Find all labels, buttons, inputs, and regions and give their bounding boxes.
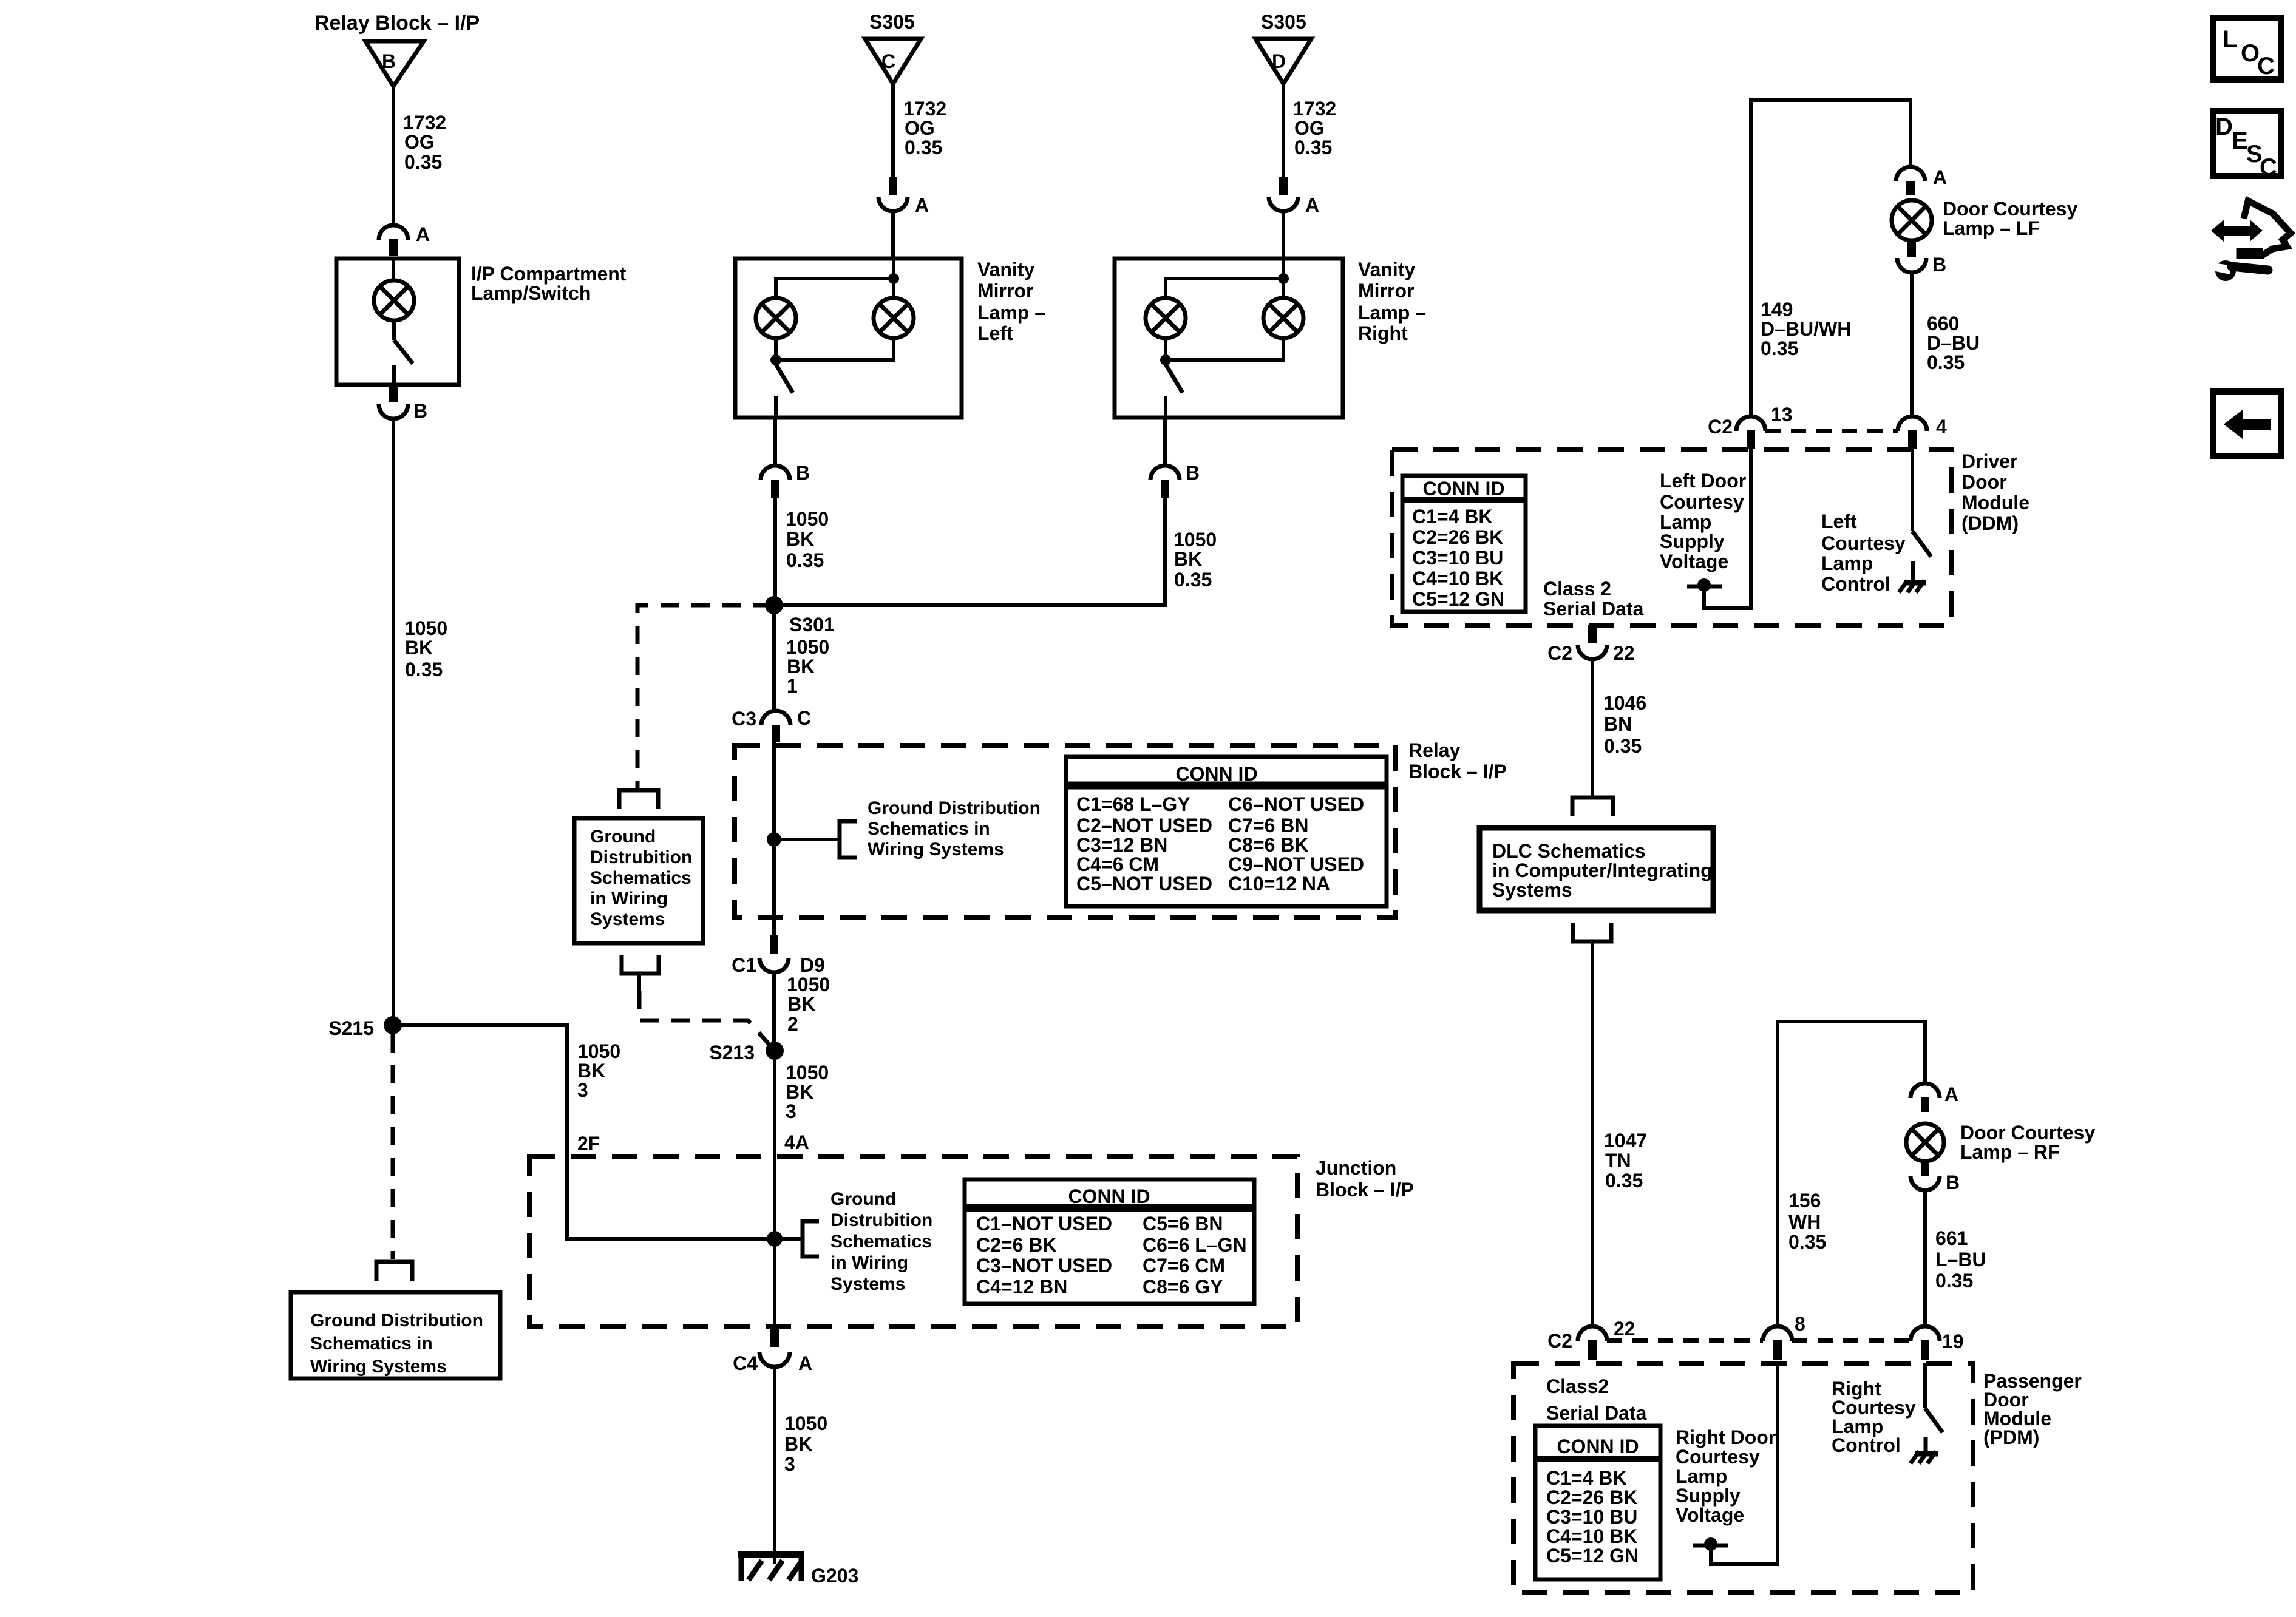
svg-text:Systems: Systems [1492,879,1572,901]
connector pin B of I/P Compartment Lamp [389,385,398,402]
off-page bracket above DLC box [1572,798,1613,816]
svg-text:C8=6 GY: C8=6 GY [1143,1276,1223,1298]
svg-text:Vanity: Vanity [1358,259,1415,280]
wire 1050 BK 2 [772,972,776,1051]
svg-text:Schematics: Schematics [590,868,691,888]
svg-text:1: 1 [787,675,798,697]
svg-text:D: D [1272,50,1286,72]
dashed wire S301 to ground distribution ref (middle) [637,605,772,789]
svg-text:0.35: 0.35 [1761,337,1798,359]
service info nav icon (arrows and wrench) [2211,201,2291,281]
wire 149 D-BU/WH loop (DDM supply) [1751,100,1911,416]
svg-text:C: C [881,50,895,72]
off-page bracket above left ground box [376,1262,412,1281]
svg-text:Control: Control [1821,573,1890,595]
wires inside left vanity box [892,259,895,279]
svg-text:B: B [1932,254,1946,276]
connector pin B of Vanity Mirror Lamp Left [773,418,777,466]
svg-text:C4=10 BK: C4=10 BK [1546,1525,1637,1547]
CONN ID table (DDM) [1402,476,1526,612]
svg-text:1050: 1050 [1173,529,1217,551]
svg-text:Ground: Ground [590,827,656,847]
svg-text:0.35: 0.35 [1927,351,1965,373]
DESC nav box [2213,111,2281,176]
svg-text:Systems: Systems [590,909,665,929]
svg-text:0.35: 0.35 [1935,1270,1973,1292]
svg-text:1050: 1050 [786,636,829,658]
svg-text:C7=6 BN: C7=6 BN [1228,815,1309,836]
junction in junction block [767,1231,783,1247]
svg-text:661: 661 [1935,1227,1968,1249]
wire 1050 BK 3 to G203 [773,1367,776,1564]
lamp (I/P compartment) [392,259,395,281]
svg-text:Right Door: Right Door [1676,1426,1776,1448]
connector triangle B (Relay Block I/P) [365,41,424,86]
svg-text:BK: BK [786,1081,813,1103]
svg-text:C2: C2 [1708,416,1733,438]
svg-text:Lamp: Lamp [1676,1465,1727,1487]
svg-text:Mirror: Mirror [977,280,1033,302]
svg-text:D–BU/WH: D–BU/WH [1761,318,1851,340]
Ground Distribution Schematics box (left) [291,1292,500,1378]
wire 1047 TN [1591,941,1594,1327]
svg-text:0.35: 0.35 [1788,1231,1826,1253]
svg-text:8: 8 [1795,1313,1805,1335]
svg-text:C3=10 BU: C3=10 BU [1546,1506,1637,1528]
PDM connector row: C2 22, 8, 19 [1607,1338,1763,1343]
switch (vanity left) [776,364,793,393]
svg-text:in Wiring: in Wiring [830,1253,908,1273]
svg-text:Serial Data: Serial Data [1546,1402,1647,1424]
svg-text:C5=12 GN: C5=12 GN [1412,588,1504,610]
svg-text:BK: BK [577,1060,605,1082]
svg-text:C9–NOT USED: C9–NOT USED [1228,853,1364,875]
svg-text:OG: OG [1294,117,1325,139]
svg-text:Ground: Ground [830,1189,896,1209]
svg-text:C1=4 BK: C1=4 BK [1412,506,1493,527]
svg-text:C2: C2 [1547,1330,1572,1352]
svg-text:Systems: Systems [830,1274,905,1294]
svg-text:1050: 1050 [786,1062,829,1083]
module ground (PDM) [1915,1451,1938,1457]
svg-text:4A: 4A [784,1131,809,1153]
connector pin A of Door Courtesy Lamp RF [1911,1083,1940,1098]
svg-text:C3–NOT USED: C3–NOT USED [976,1255,1112,1276]
svg-text:Lamp: Lamp [1660,511,1711,533]
svg-text:0.35: 0.35 [1604,735,1642,757]
svg-text:2: 2 [787,1013,798,1035]
svg-text:Block – I/P: Block – I/P [1316,1179,1414,1201]
svg-text:Control: Control [1832,1434,1901,1456]
lamp 2 (vanity left) [892,279,895,298]
svg-text:Block – I/P: Block – I/P [1408,761,1507,782]
svg-text:G203: G203 [811,1565,858,1587]
svg-text:Junction: Junction [1316,1157,1396,1179]
svg-text:Module: Module [1961,492,2029,514]
lamp 1 (vanity left) [756,298,796,338]
svg-text:BK: BK [784,1433,812,1455]
CONN ID table (PDM) [1535,1426,1660,1579]
svg-text:Courtesy: Courtesy [1821,532,1906,554]
svg-text:1050: 1050 [577,1040,620,1062]
wire 1050 BK to S301 [773,498,777,605]
svg-text:Voltage: Voltage [1676,1504,1744,1526]
I/P Compartment Lamp/Switch box [336,259,459,385]
svg-text:S213: S213 [709,1042,755,1063]
svg-text:1732: 1732 [903,98,946,120]
svg-text:DLC Schematics: DLC Schematics [1492,840,1646,862]
svg-text:Serial Data: Serial Data [1543,598,1644,620]
svg-text:Mirror: Mirror [1358,280,1414,302]
svg-text:L: L [2223,26,2237,53]
Relay Block - I/P dashed box [735,745,1395,918]
svg-text:149: 149 [1761,299,1793,320]
svg-text:Left: Left [1821,510,1857,532]
connector pin A of I/P Compartment Lamp [379,225,408,240]
svg-text:0.35: 0.35 [786,549,824,571]
connector pin A of Vanity Mirror Lamp Left [889,177,897,195]
connector pin B of Vanity Mirror Lamp Right [1163,418,1167,466]
svg-text:Distrubition: Distrubition [830,1210,932,1230]
svg-text:1050: 1050 [786,508,829,530]
svg-text:C4=12 BN: C4=12 BN [976,1276,1067,1298]
svg-text:C6=6 L–GN: C6=6 L–GN [1143,1234,1247,1256]
svg-text:CONN ID: CONN ID [1557,1436,1639,1457]
svg-text:(PDM): (PDM) [1983,1426,2039,1448]
module ground (DDM) [1904,580,1926,586]
svg-text:1732: 1732 [403,112,446,134]
svg-text:3: 3 [577,1079,588,1101]
right door courtesy lamp supply voltage terminal [1711,1363,1778,1564]
svg-text:Vanity: Vanity [977,259,1034,280]
svg-text:Door Courtesy: Door Courtesy [1960,1122,2095,1144]
splice S213 [766,1042,784,1060]
svg-text:Lamp: Lamp [1821,552,1873,574]
wire 156 WH loop (PDM supply) [1778,1022,1925,1326]
splice S215 [384,1016,402,1034]
svg-text:C10=12 NA: C10=12 NA [1228,873,1330,895]
LOC nav box [2213,18,2281,80]
svg-text:C: C [2260,154,2277,181]
svg-text:Voltage: Voltage [1660,551,1728,572]
svg-text:S301: S301 [789,614,835,636]
svg-text:Driver: Driver [1961,450,2018,472]
svg-text:13: 13 [1771,404,1793,425]
wire 1732 OG (left vanity) [891,84,895,177]
svg-text:C2: C2 [1547,642,1572,664]
svg-text:I/P Compartment: I/P Compartment [471,263,627,285]
splice S301 [765,596,783,614]
svg-text:1050: 1050 [784,1412,827,1434]
svg-text:C3=12 BN: C3=12 BN [1076,834,1167,856]
svg-text:Courtesy: Courtesy [1660,491,1744,513]
svg-text:C5–NOT USED: C5–NOT USED [1076,873,1212,895]
svg-text:3: 3 [784,1453,795,1475]
svg-text:L–BU: L–BU [1935,1249,1986,1270]
connector C2 pin 22 below DDM [1588,625,1597,643]
wire 1046 BN [1591,659,1594,797]
CONN ID table (Relay Block) [1066,757,1387,906]
DDM connector row: C2 13 and 4 [1765,429,1898,433]
svg-text:Distrubition: Distrubition [590,847,692,867]
box Vanity Mirror Lamp - Left [735,259,962,418]
svg-text:A: A [798,1352,812,1374]
bracket to ground distribution note (relay block) [840,821,857,858]
connector pin B of Door Courtesy Lamp LF [1907,241,1916,257]
svg-text:C5=12 GN: C5=12 GN [1546,1545,1639,1567]
svg-text:Lamp –: Lamp – [1358,302,1426,324]
svg-text:C3: C3 [732,708,756,730]
DLC Schematics box [1479,828,1713,910]
svg-text:CONN ID: CONN ID [1068,1185,1150,1207]
svg-text:Courtesy: Courtesy [1676,1446,1760,1468]
dashed wire S215 to ground distribution ref [391,1034,395,1259]
svg-text:Ground Distribution: Ground Distribution [310,1310,483,1331]
svg-text:D: D [2215,114,2233,140]
svg-text:Ground Distribution: Ground Distribution [868,798,1041,818]
svg-text:Relay: Relay [1408,739,1461,761]
svg-text:BK: BK [405,637,433,659]
svg-text:C: C [2257,53,2275,80]
svg-text:0.35: 0.35 [1294,137,1332,158]
wire into left vanity box [891,211,895,259]
svg-text:Lamp – RF: Lamp – RF [1960,1141,2060,1163]
connector pin A of Vanity Mirror Lamp Right [1279,177,1288,195]
connector C4 pin A below junction block [770,1329,779,1347]
connector C1 pin D9 below relay block [770,935,778,954]
svg-text:Wiring Systems: Wiring Systems [310,1357,447,1377]
wires below lamps (vanity left) [776,338,894,360]
svg-text:B: B [1186,462,1200,484]
wire through relay block [772,742,776,935]
svg-text:TN: TN [1605,1150,1631,1171]
svg-text:B: B [382,50,396,72]
wire 1732 OG (right vanity) [1282,84,1285,177]
wire into right vanity box [1282,211,1285,259]
svg-text:D–BU: D–BU [1927,332,1980,354]
svg-text:Right: Right [1358,322,1408,344]
wire 1050 BK 1 [772,605,776,711]
svg-text:3: 3 [786,1100,796,1122]
svg-text:Door: Door [1961,471,2007,493]
junction node (right vanity feed) [1166,279,1283,298]
lamp 2 (vanity right) [1282,279,1285,298]
wire through junction block [773,1051,776,1329]
wire 661 L-BU [1923,1190,1927,1326]
connector pin A of Door Courtesy Lamp LF [1896,167,1925,181]
connector triangle C (S305) [865,39,921,84]
svg-text:C4=10 BK: C4=10 BK [1412,568,1503,589]
lamp Door Courtesy RF [1906,1124,1944,1161]
svg-text:Supply: Supply [1660,531,1725,552]
back arrow nav box [2213,392,2281,456]
Junction Block - I/P dashed box [529,1156,1297,1327]
svg-text:C4: C4 [733,1352,758,1374]
wire 660 D-BU [1910,273,1914,416]
box Vanity Mirror Lamp - Right [1115,259,1343,418]
svg-text:1732: 1732 [1293,98,1336,120]
svg-text:Supply: Supply [1676,1485,1741,1507]
svg-text:22: 22 [1614,1318,1635,1340]
dashed wire to S213 [639,991,775,1051]
Passenger Door Module (PDM) dashed box [1513,1363,1973,1593]
svg-text:Class2: Class2 [1546,1375,1609,1397]
svg-text:Wiring Systems: Wiring Systems [868,839,1004,859]
svg-text:B: B [413,400,427,422]
svg-text:0.35: 0.35 [1605,1170,1643,1192]
left courtesy lamp control switch [1911,449,1914,531]
CONN ID table (Junction Block) [965,1179,1254,1304]
svg-text:BK: BK [786,528,814,550]
svg-text:0.35: 0.35 [404,151,442,173]
svg-text:0.35: 0.35 [1174,569,1212,591]
svg-text:C2=26 BK: C2=26 BK [1546,1486,1637,1508]
svg-text:660: 660 [1927,313,1959,334]
svg-text:S305: S305 [1261,11,1306,33]
svg-text:Door Courtesy: Door Courtesy [1943,198,2077,220]
svg-text:0.35: 0.35 [905,137,942,158]
svg-text:2F: 2F [577,1133,600,1154]
svg-text:156: 156 [1788,1190,1821,1212]
svg-text:A: A [1944,1083,1958,1105]
svg-text:C5=6 BN: C5=6 BN [1143,1213,1223,1235]
svg-text:Left: Left [977,322,1013,344]
svg-text:Schematics: Schematics [830,1232,932,1252]
svg-text:Lamp/Switch: Lamp/Switch [471,282,591,304]
ground G203 [738,1551,804,1558]
svg-text:A: A [1305,194,1319,216]
svg-text:BK: BK [1174,548,1202,570]
connector pin B of Door Courtesy Lamp RF [1921,1161,1929,1176]
svg-text:CONN ID: CONN ID [1422,478,1504,500]
svg-text:Lamp – LF: Lamp – LF [1943,217,2040,239]
svg-text:C: C [797,707,811,729]
svg-text:19: 19 [1942,1331,1964,1352]
svg-text:C7=6 CM: C7=6 CM [1143,1255,1225,1276]
svg-text:A: A [915,194,929,216]
lamp 1 (vanity right) [1146,298,1186,338]
connector triangle D (S305) [1255,39,1311,84]
svg-text:22: 22 [1613,642,1635,664]
switch (vanity right) [1166,364,1183,393]
wire from S215 to junction block [393,1025,775,1239]
right courtesy lamp control switch [1923,1363,1927,1408]
left door courtesy lamp supply voltage terminal [1704,449,1751,608]
svg-text:1046: 1046 [1603,692,1646,714]
svg-text:B: B [1946,1171,1960,1193]
svg-text:D9: D9 [800,954,825,976]
svg-text:B: B [796,462,810,484]
svg-text:C2–NOT USED: C2–NOT USED [1076,815,1212,836]
svg-text:S305: S305 [869,11,915,33]
bracket to ground distribution note (junction block) [803,1221,819,1256]
svg-text:C4=6 CM: C4=6 CM [1076,853,1159,875]
svg-text:1050: 1050 [404,617,447,639]
svg-text:C6–NOT USED: C6–NOT USED [1228,793,1364,815]
Ground Distrubition Schematics box (middle) [574,818,703,943]
svg-text:BK: BK [787,993,815,1015]
svg-text:A: A [1933,166,1947,188]
wire 1050 BK to S215 [392,419,395,1025]
svg-text:C8=6 BK: C8=6 BK [1228,834,1309,856]
junction in relay block [767,832,781,847]
svg-text:Left Door: Left Door [1660,470,1746,492]
svg-text:S215: S215 [328,1017,374,1039]
off-page bracket below middle ground box [622,955,659,974]
svg-text:A: A [416,223,430,245]
svg-text:C2=6 BK: C2=6 BK [976,1234,1057,1256]
svg-text:1050: 1050 [787,974,830,995]
wires below lamps (vanity right) [1166,338,1283,360]
svg-text:(DDM): (DDM) [1961,512,2019,534]
wire 1732 OG [392,86,395,225]
svg-text:WH: WH [1788,1211,1821,1233]
svg-text:C1: C1 [732,954,756,976]
svg-text:Lamp –: Lamp – [977,302,1045,324]
Driver Door Module (DDM) dashed box [1392,449,1952,625]
wires inside right vanity box [1282,259,1285,279]
off-page bracket below DLC box [1573,923,1611,941]
svg-text:Relay Block – I/P: Relay Block – I/P [314,12,480,35]
svg-text:OG: OG [404,131,435,153]
svg-text:Schematics in: Schematics in [310,1334,433,1354]
svg-text:1047: 1047 [1604,1130,1647,1151]
switch (I/P compartment) [392,320,396,340]
svg-text:BN: BN [1604,713,1632,735]
svg-text:0.35: 0.35 [405,659,443,680]
svg-text:C1–NOT USED: C1–NOT USED [976,1213,1112,1235]
svg-text:BK: BK [787,656,815,677]
svg-text:C1=4 BK: C1=4 BK [1546,1467,1627,1489]
lamp Door Courtesy LF [1892,200,1932,240]
svg-text:in Wiring: in Wiring [590,889,668,909]
svg-text:Schematics in: Schematics in [868,819,990,839]
svg-text:OG: OG [905,117,935,139]
svg-text:C1=68 L–GY: C1=68 L–GY [1076,793,1190,815]
svg-text:C2=26 BK: C2=26 BK [1412,526,1503,548]
connector C3 pin C of Relay Block [761,711,790,725]
junction node (left vanity feed) [776,279,894,298]
svg-text:C3=10 BU: C3=10 BU [1412,547,1503,569]
svg-text:in Computer/Integrating: in Computer/Integrating [1492,859,1713,881]
svg-text:Class 2: Class 2 [1543,578,1611,600]
wire 1050 BK (right vanity) to S301 [775,498,1165,605]
svg-text:CONN ID: CONN ID [1175,763,1257,785]
svg-text:4: 4 [1936,416,1947,438]
svg-text:E: E [2232,127,2248,154]
off-page bracket above middle ground box [619,790,658,809]
